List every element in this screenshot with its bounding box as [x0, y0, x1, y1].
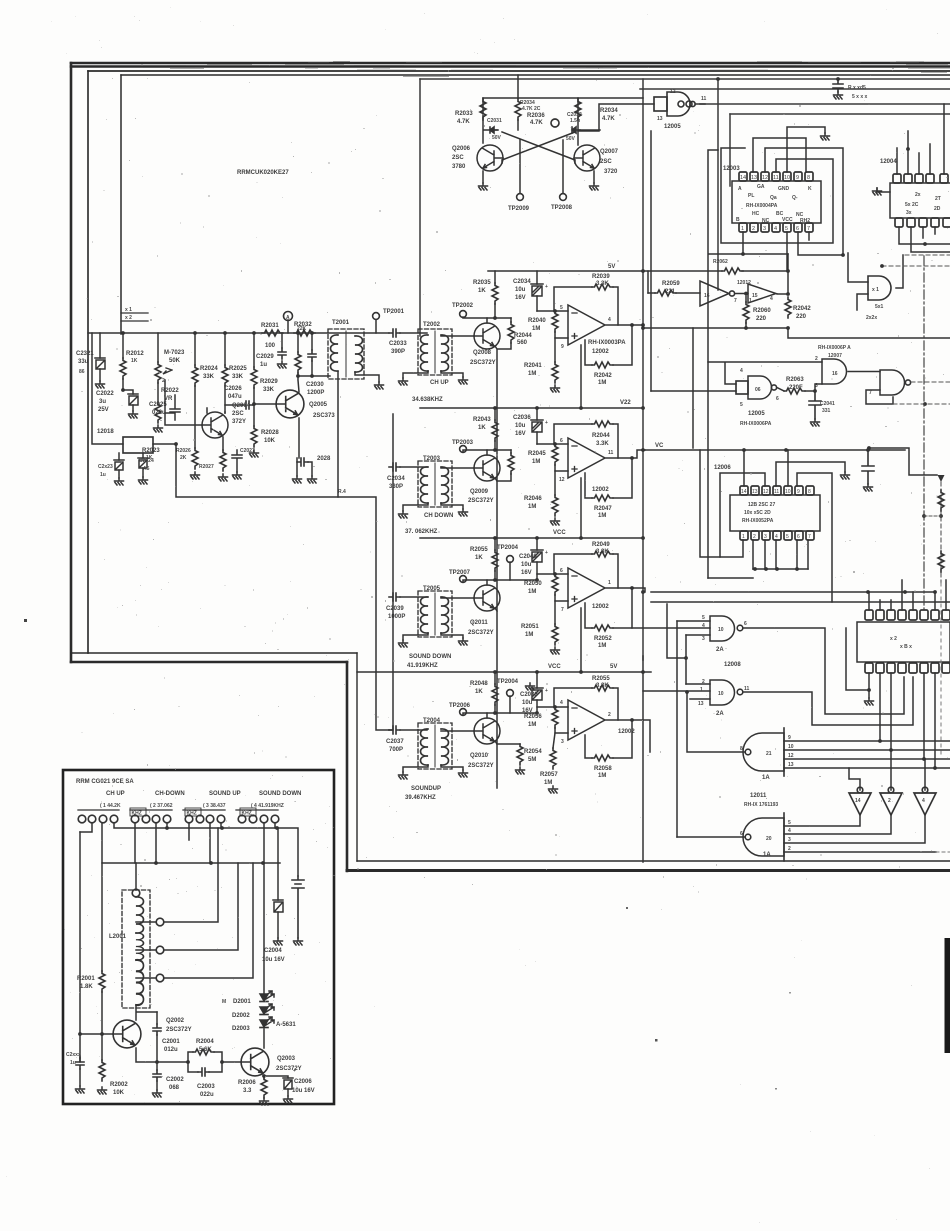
feedback R2047 — [613, 458, 632, 498]
svg-text:1M: 1M — [598, 380, 606, 386]
wire nand21 outputs — [784, 741, 950, 768]
transistor Q2008 — [474, 323, 500, 349]
svg-text:M: M — [222, 999, 226, 1005]
svg-text:VCC: VCC — [553, 530, 566, 536]
wire gate2 out — [743, 677, 913, 725]
wire nand out — [777, 388, 784, 392]
svg-text:C2002: C2002 — [166, 1077, 184, 1083]
wire bus y863 — [102, 823, 280, 863]
op-amp U12002a — [568, 305, 605, 345]
svg-text:R2024: R2024 — [200, 366, 218, 372]
svg-text:1: 1 — [741, 226, 744, 232]
svg-text:33u: 33u — [78, 359, 89, 365]
capacitor right of IC — [862, 450, 874, 484]
svg-text:2x: 2x — [915, 192, 921, 198]
ground T2005 right — [459, 638, 468, 645]
svg-text:SOUND DOWN: SOUND DOWN — [259, 791, 301, 797]
svg-text:TP2001: TP2001 — [383, 309, 405, 315]
svg-text:( 3 38.437: ( 3 38.437 — [203, 803, 226, 809]
wire pin1 down — [709, 232, 788, 254]
svg-text:16V: 16V — [521, 570, 532, 576]
svg-text:TP2004: TP2004 — [497, 545, 519, 551]
svg-text:R2042: R2042 — [793, 306, 811, 312]
svg-text:11: 11 — [773, 175, 779, 181]
tap 1 — [136, 921, 156, 923]
svg-text:R.4: R.4 — [338, 489, 346, 495]
svg-text:12: 12 — [763, 489, 769, 495]
svg-text:047u: 047u — [228, 394, 242, 400]
svg-text:16V: 16V — [515, 431, 526, 437]
wire output — [606, 588, 645, 592]
svg-text:R2040: R2040 — [528, 318, 546, 324]
svg-text:R2012: R2012 — [126, 351, 144, 357]
ground top-right — [834, 92, 843, 99]
wire cap to box — [400, 332, 427, 334]
capacitor C2034b — [389, 463, 400, 471]
dashed branch — [940, 482, 942, 583]
svg-text:R2041: R2041 — [524, 363, 542, 369]
junction dot top bus2 — [836, 77, 840, 81]
svg-text:4: 4 — [560, 700, 563, 706]
svg-text:3: 3 — [702, 636, 705, 642]
svg-text:20: 20 — [766, 836, 772, 842]
resistor R2056 — [552, 707, 558, 728]
svg-text:9: 9 — [561, 344, 564, 350]
svg-text:R2055: R2055 — [470, 547, 488, 553]
svg-text:15: 15 — [752, 293, 758, 299]
wire emitter — [495, 608, 497, 611]
outer page border top — [71, 63, 950, 67]
svg-text:R2025: R2025 — [229, 366, 247, 372]
svg-text:R2039: R2039 — [592, 274, 610, 280]
svg-text:13: 13 — [788, 762, 794, 768]
ground Q2006 — [479, 183, 488, 190]
svg-text:6: 6 — [796, 226, 799, 232]
svg-text:4: 4 — [770, 296, 773, 302]
svg-text:5M: 5M — [528, 757, 536, 763]
svg-text:12011: 12011 — [750, 793, 767, 799]
svg-text:5: 5 — [740, 402, 743, 408]
capacitor C2026 — [242, 401, 253, 409]
wire nand right loop — [866, 390, 893, 404]
speck 656,1040 — [655, 1039, 658, 1042]
svg-text:3: 3 — [764, 534, 767, 540]
ground C2022 — [129, 411, 138, 418]
svg-text:5: 5 — [786, 534, 789, 540]
svg-text:2SC372Y: 2SC372Y — [276, 1066, 302, 1072]
svg-text:R2006: R2006 — [238, 1080, 256, 1086]
wire node 318 — [463, 317, 511, 318]
inner left wire — [120, 75, 122, 334]
resistor R2030 — [297, 333, 299, 352]
svg-text:TP2002: TP2002 — [452, 303, 474, 309]
capacitor C2031 — [490, 127, 498, 133]
wire Q2002 base — [80, 1033, 113, 1035]
transistor Q2004 — [202, 412, 228, 438]
svg-text:12018: 12018 — [97, 429, 114, 435]
wire long 592 — [651, 591, 935, 593]
svg-text:2: 2 — [753, 534, 756, 540]
wire and output — [896, 255, 903, 288]
svg-text:2028: 2028 — [317, 456, 331, 462]
svg-text:R x xd5: R x xd5 — [848, 85, 866, 91]
ground R2046 — [551, 518, 560, 525]
svg-text:1M: 1M — [598, 513, 606, 519]
wire x788 vertical — [787, 254, 789, 292]
svg-text:3.3K: 3.3K — [596, 549, 609, 555]
IC 12003 body — [732, 181, 821, 223]
svg-text:25V: 25V — [98, 407, 109, 413]
svg-text:C2040: C2040 — [519, 554, 537, 560]
svg-text:4.7K: 4.7K — [530, 120, 543, 126]
svg-text:3: 3 — [788, 837, 791, 843]
svg-text:1: 1 — [742, 534, 745, 540]
variable resistor VR M-7023 — [157, 333, 159, 362]
wire Q2004 base — [165, 380, 202, 425]
svg-text:50V: 50V — [492, 135, 502, 141]
wire input stubs x1 x2 — [121, 313, 148, 321]
svg-text:1K: 1K — [478, 425, 486, 431]
svg-text:11: 11 — [774, 489, 779, 495]
rail VCC 5V — [357, 671, 651, 673]
svg-text:C2029: C2029 — [256, 354, 274, 360]
svg-text:2: 2 — [815, 356, 818, 362]
svg-text:x 2: x 2 — [125, 315, 132, 321]
ground C2021 — [96, 381, 105, 388]
svg-text:022u: 022u — [152, 410, 166, 416]
capacitor C2004 — [277, 828, 279, 900]
svg-text:C2041: C2041 — [820, 401, 835, 407]
svg-text:1: 1 — [700, 687, 703, 693]
ground IC12006 right — [841, 472, 850, 479]
wire and inputs — [848, 253, 868, 310]
svg-text:220: 220 — [756, 316, 767, 322]
wire Q2005 emitter — [298, 418, 300, 458]
op-amp U12002d — [568, 700, 605, 740]
wire inputs gate1 — [632, 621, 710, 635]
wire vertical x643 main bus — [642, 79, 644, 660]
svg-text:5: 5 — [788, 820, 791, 826]
svg-text:R2056: R2056 — [524, 714, 542, 720]
nand 12005 mid — [748, 376, 772, 399]
wire top bus B — [640, 88, 950, 90]
svg-text:4: 4 — [608, 317, 611, 323]
svg-text:4.7K 2C: 4.7K 2C — [522, 106, 541, 112]
ground C2041 — [811, 419, 820, 426]
svg-text:7: 7 — [869, 390, 872, 396]
svg-text:R2033: R2033 — [455, 111, 473, 117]
wire VC rail — [645, 449, 905, 451]
svg-text:R2062: R2062 — [713, 259, 728, 265]
inverter C — [914, 787, 936, 815]
svg-text:R2044: R2044 — [592, 433, 610, 439]
svg-text:8: 8 — [808, 489, 811, 495]
op-amp U12002c — [568, 568, 605, 608]
svg-text:5x1: 5x1 — [875, 304, 884, 310]
resistor R2055 — [494, 538, 496, 550]
wire Q2007 emitter — [593, 171, 595, 183]
KHZ box 3 — [240, 808, 256, 816]
svg-text:2A: 2A — [716, 647, 724, 653]
wire to gate3 input — [815, 384, 822, 391]
svg-text:5.6K: 5.6K — [199, 1047, 212, 1053]
feedback R2039 — [554, 287, 592, 311]
capacitor right — [292, 876, 304, 938]
svg-text:10: 10 — [788, 744, 794, 750]
capacitor C2028 — [297, 458, 308, 466]
svg-text:GND: GND — [778, 186, 790, 192]
resistor R2024 — [194, 333, 196, 365]
wire long 602 — [651, 601, 950, 603]
svg-text:A: A — [738, 186, 742, 192]
op-amp U12002b — [568, 438, 605, 478]
svg-text:Qa: Qa — [770, 195, 777, 201]
test point TP2009 — [517, 194, 524, 201]
svg-text:1K: 1K — [131, 358, 138, 364]
IC 12004 bottom pins — [895, 218, 950, 227]
capacitor C2040 — [536, 538, 538, 550]
svg-text:1M: 1M — [532, 326, 540, 332]
svg-text:+: + — [293, 1068, 296, 1074]
wire vertical x420 — [419, 79, 421, 336]
resistor R2040 — [552, 311, 558, 332]
IC 12006 bottom pins — [740, 531, 814, 540]
wire emitter — [495, 741, 497, 744]
second frame left — [87, 71, 89, 653]
KHZ box 2 — [185, 808, 201, 816]
svg-text:C2xxx: C2xxx — [66, 1052, 81, 1058]
svg-text:C2031: C2031 — [487, 118, 502, 124]
svg-text:R2063: R2063 — [786, 377, 804, 383]
svg-text:R2052: R2052 — [594, 636, 612, 642]
resistor R2023 — [157, 383, 159, 402]
ground T2004 left — [399, 772, 408, 779]
wire base — [441, 467, 474, 469]
wire emitter bus — [136, 1048, 188, 1062]
svg-text:R2057: R2057 — [540, 772, 558, 778]
ground cap — [864, 484, 873, 491]
svg-text:5V: 5V — [610, 664, 617, 670]
capacitor C2037 — [389, 726, 400, 734]
svg-text:14: 14 — [740, 175, 746, 181]
wire pin12 route left — [720, 473, 765, 557]
capacitor C2032 — [572, 127, 580, 133]
inverter 15 — [748, 284, 776, 303]
inverter 16 — [700, 281, 729, 306]
svg-text:4: 4 — [788, 828, 791, 834]
feedback R2042 — [613, 325, 632, 365]
svg-text:6: 6 — [776, 396, 779, 402]
svg-text:13: 13 — [751, 175, 757, 181]
svg-text:R2026: R2026 — [176, 448, 191, 454]
resistor R2057 1M — [553, 733, 555, 748]
svg-text:068: 068 — [169, 1085, 180, 1091]
transistor Q2010 — [474, 718, 500, 744]
svg-text:2SC372Y: 2SC372Y — [468, 630, 494, 636]
wire Q2003 emitter — [263, 1076, 265, 1078]
wire inv1 out — [735, 293, 748, 295]
node A terminal — [284, 312, 293, 321]
feedback R2058 — [613, 720, 632, 758]
svg-text:16V: 16V — [515, 295, 526, 301]
inner top wire — [121, 74, 950, 76]
svg-text:1M: 1M — [528, 504, 536, 510]
wire pin11 route to ground — [776, 462, 845, 486]
svg-text:1u: 1u — [100, 472, 106, 478]
svg-text:TP2008: TP2008 — [551, 205, 573, 211]
resistor R2028 — [253, 404, 255, 426]
svg-text:12002: 12002 — [592, 349, 609, 355]
svg-text:10u: 10u — [515, 287, 526, 293]
svg-text:+: + — [545, 550, 548, 556]
resistor R2025 — [224, 333, 226, 365]
svg-text:390P: 390P — [391, 349, 405, 355]
svg-text:9: 9 — [796, 175, 799, 181]
svg-text:C2036: C2036 — [513, 415, 531, 421]
wire node 707 — [537, 706, 568, 708]
svg-text:4: 4 — [740, 368, 743, 374]
wire inputs gate2 — [643, 684, 710, 699]
wire pin9 route right loop — [797, 473, 832, 602]
ground T2005 left — [399, 640, 408, 647]
wire x581 segment 1 — [580, 345, 582, 408]
wire jog — [868, 448, 937, 475]
svg-text:( 2 37.062: ( 2 37.062 — [150, 803, 173, 809]
transistor Q2009 — [474, 455, 500, 481]
wire x581 segment 2 — [580, 478, 582, 538]
wire output — [606, 720, 650, 752]
svg-text:2: 2 — [752, 226, 755, 232]
svg-text:41.919KHZ: 41.919KHZ — [407, 663, 438, 669]
wire cross coupling — [502, 132, 575, 163]
wire inverter feeds — [849, 750, 925, 790]
svg-text:+: + — [545, 284, 548, 290]
capacitor C2041 — [809, 391, 821, 419]
svg-text:2SC: 2SC — [600, 159, 612, 165]
svg-text:SOUNDUP: SOUNDUP — [411, 786, 441, 792]
svg-text:SOUND DOWN: SOUND DOWN — [409, 654, 451, 660]
outer page border left — [70, 63, 73, 662]
resistor R2060 — [745, 296, 747, 302]
svg-text:D2002: D2002 — [232, 1013, 250, 1019]
svg-text:R2028: R2028 — [261, 430, 279, 436]
nand gate 2A-2 — [710, 680, 735, 705]
svg-text:C2030: C2030 — [306, 382, 324, 388]
wire bottom pins down — [869, 673, 935, 768]
svg-text:12008: 12008 — [724, 662, 741, 668]
wire TP2009 stem — [519, 140, 521, 193]
feedback R2055b — [554, 688, 592, 707]
IC 12006 body — [730, 495, 820, 531]
IC 12007 top pins — [865, 610, 950, 620]
resistor R2012 — [122, 333, 124, 358]
and gate — [868, 276, 891, 300]
ground Q2007 — [590, 183, 599, 190]
resistor R2044 560 — [510, 318, 512, 322]
wire left stub — [846, 628, 869, 690]
switch bars — [78, 809, 278, 811]
wire pin6 loop right — [798, 232, 843, 255]
svg-text:12: 12 — [670, 89, 676, 95]
inverter B — [880, 787, 902, 815]
svg-text:2x2x: 2x2x — [866, 315, 877, 321]
wire x693 link — [692, 328, 694, 448]
resistor R2034b — [575, 99, 581, 120]
svg-text:7: 7 — [807, 226, 810, 232]
svg-text:6: 6 — [560, 568, 563, 574]
svg-text:5V: 5V — [608, 264, 615, 270]
wire bottom 328 — [643, 327, 788, 329]
svg-text:R2035: R2035 — [473, 280, 491, 286]
svg-text:16: 16 — [704, 293, 710, 299]
inverter A — [849, 787, 871, 815]
svg-text:HC: HC — [752, 211, 760, 217]
ground small above cap — [526, 683, 535, 690]
svg-text:9: 9 — [797, 489, 800, 495]
resistor R2062 — [722, 268, 743, 274]
svg-text:CH UP: CH UP — [430, 380, 449, 386]
svg-text:R2054: R2054 — [524, 749, 542, 755]
svg-text:R2045: R2045 — [528, 451, 546, 457]
resistor on dashed 2 — [938, 551, 944, 572]
svg-text:R2022: R2022 — [161, 388, 179, 394]
resistor R2027 — [220, 450, 226, 471]
link dots — [922, 514, 926, 518]
nand gate 2A-1 — [710, 616, 735, 641]
svg-text:5 x x x: 5 x x x — [852, 94, 868, 100]
resistor R2045 — [552, 444, 558, 465]
svg-text:4: 4 — [775, 534, 778, 540]
svg-text:x 1: x 1 — [872, 287, 879, 293]
transistor Q2007 — [574, 145, 600, 171]
capacitor C2038 — [536, 672, 538, 688]
notch vertical border thin — [356, 653, 358, 861]
second frame top — [88, 70, 950, 72]
IC 12004 body — [890, 183, 950, 218]
svg-text:6: 6 — [560, 438, 563, 444]
resistor R2033 — [480, 99, 486, 120]
resistor R2029 — [253, 333, 255, 367]
svg-text:D2001: D2001 — [233, 999, 251, 1005]
capacitor C2029 — [281, 333, 283, 348]
wire nand20 outputs — [784, 815, 936, 852]
svg-text:VCC: VCC — [548, 664, 561, 670]
svg-text:CH UP: CH UP — [106, 791, 125, 797]
svg-text:10: 10 — [784, 175, 790, 181]
svg-text:2SC372Y: 2SC372Y — [468, 498, 494, 504]
capacitor C2039 — [389, 593, 400, 601]
wire node 444 — [537, 443, 568, 445]
transistor Q2006 — [477, 145, 503, 171]
transistor Q2002 — [113, 1020, 141, 1048]
svg-text:33K: 33K — [263, 387, 275, 393]
svg-text:C2024: C2024 — [139, 458, 154, 464]
svg-text:RRM CG021 9CE SA: RRM CG021 9CE SA — [76, 779, 134, 785]
svg-text:1K: 1K — [478, 288, 486, 294]
resistor R2026 — [192, 448, 198, 469]
resistor R2051 — [554, 601, 556, 624]
svg-text:R2043: R2043 — [473, 417, 491, 423]
svg-text:4.7K: 4.7K — [457, 119, 470, 125]
svg-text:1M: 1M — [598, 773, 606, 779]
svg-text:11: 11 — [608, 450, 614, 456]
svg-text:12004: 12004 — [880, 159, 897, 165]
wire bus x643 extension — [642, 656, 644, 862]
svg-text:1M: 1M — [528, 589, 536, 595]
feedback R2044 — [554, 424, 592, 444]
wire bus x651 upper — [650, 131, 652, 391]
svg-text:Q2007: Q2007 — [600, 149, 619, 155]
